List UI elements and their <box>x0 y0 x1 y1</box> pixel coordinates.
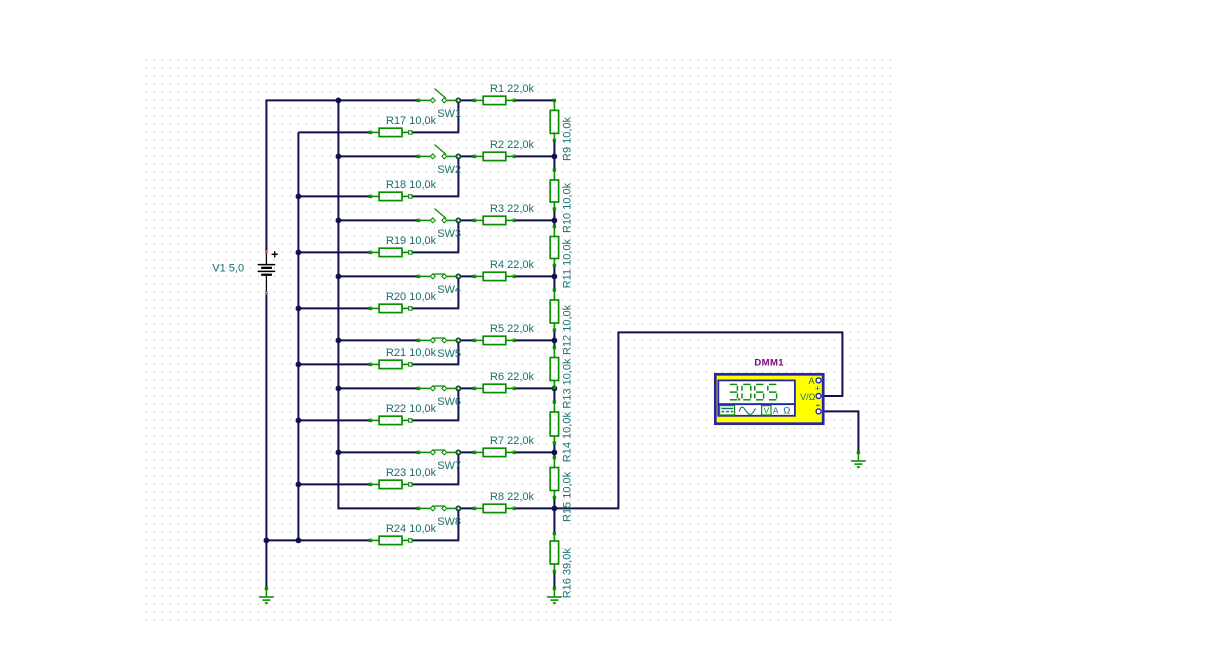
resistor R14 10,0k (vertical) <box>550 400 558 444</box>
resistor R20 10,0k <box>369 304 412 312</box>
resistor R17 10,0k <box>369 128 412 136</box>
junction bus B at R22 row <box>296 418 302 424</box>
resistor R10 10,0k (vertical) <box>550 168 558 210</box>
wire bus A to SW2 <box>338 155 418 157</box>
DMM1 terminals A, +, V/Ohm, - <box>800 376 821 414</box>
junction node bus A / V1+ <box>336 98 342 104</box>
resistor R7 22,0k <box>473 448 516 456</box>
resistor R4 22,0k <box>473 272 516 280</box>
wire bus B to R20 <box>298 307 370 309</box>
junction ladder node 8 <box>552 506 558 512</box>
wire R17 to SW1 output node <box>410 100 458 132</box>
resistor R9 10,0k (vertical) <box>550 99 558 142</box>
wire R18 to SW2 output node <box>410 156 458 196</box>
junction ladder node 6 <box>552 386 558 392</box>
wire ladder node 7 to node 8 <box>553 498 555 534</box>
wire ladder node 3 to node 4 <box>553 266 555 291</box>
wire SW3 output to R3 <box>458 219 474 221</box>
junction SW4 output (switch output node) <box>456 274 462 280</box>
wire R4 to ladder node 4 <box>514 275 554 277</box>
junction SW2 output (switch output node) <box>456 154 462 160</box>
svg-text:R9 10,0k: R9 10,0k <box>562 116 574 161</box>
resistor R2 22,0k <box>473 152 516 160</box>
wire ladder node 6 to node 7 <box>553 443 555 458</box>
svg-text:DMM1: DMM1 <box>754 357 784 368</box>
wire output node to DMM + (V/ohm) <box>554 332 842 508</box>
junction bus A at SW2 row <box>336 154 342 160</box>
wire ladder R16 to ground <box>553 572 555 588</box>
switch SW8 <box>417 506 459 511</box>
resistor R15 10,0k (vertical) <box>550 456 558 499</box>
wire bus A to SW4 <box>338 275 418 277</box>
svg-text:SW3: SW3 <box>437 228 461 240</box>
DMM1 display reading 3.065 <box>730 384 777 400</box>
wire ladder node 5 to node 6 <box>553 388 555 403</box>
resistor R3 22,0k <box>473 216 516 224</box>
svg-text:R10 10,0k: R10 10,0k <box>562 182 574 233</box>
junction ladder node 7 <box>552 450 558 456</box>
resistor R13 10,0k (vertical) <box>550 346 558 389</box>
wire R19 to SW3 output node <box>410 220 458 252</box>
svg-text:R18 10,0k: R18 10,0k <box>386 179 437 191</box>
wire bus B to R24 <box>266 539 370 541</box>
wire V1+ up and across to SW1 <box>266 100 418 250</box>
svg-text:V: V <box>763 405 769 415</box>
switch SW5 <box>417 338 459 343</box>
ground GND (ladder / R16) <box>547 587 562 603</box>
junction ladder node 5 <box>552 338 558 344</box>
resistor R19 10,0k <box>369 248 412 256</box>
junction bus A at SW4 row <box>336 274 342 280</box>
ground GND (V1) <box>259 587 274 603</box>
junction ladder node 4 <box>552 274 558 280</box>
svg-text:V1 5,0: V1 5,0 <box>212 263 244 275</box>
wire SW1 output to R1 <box>458 99 474 101</box>
wire R21 to SW5 output node <box>410 340 458 364</box>
wire R7 to ladder node 7 <box>514 451 554 453</box>
resistor R8 22,0k <box>473 504 516 512</box>
switch SW6 <box>417 386 459 391</box>
junction bus B at R21 row <box>296 362 302 368</box>
svg-text:SW8: SW8 <box>437 516 461 528</box>
svg-text:R16 39,0k: R16 39,0k <box>562 548 574 599</box>
svg-text:SW5: SW5 <box>437 348 461 360</box>
svg-text:R21 10,0k: R21 10,0k <box>386 347 437 359</box>
resistor R24 10,0k <box>369 536 412 544</box>
junction bus A at SW5 row <box>336 338 342 344</box>
junction ladder node 2 <box>552 154 558 160</box>
svg-text:SW7: SW7 <box>437 460 461 472</box>
svg-text:Ω: Ω <box>783 406 790 417</box>
svg-text:+: + <box>815 383 821 394</box>
svg-text:R23 10,0k: R23 10,0k <box>386 467 437 479</box>
switch SW3 <box>417 209 459 223</box>
junction SW5 output (switch output node) <box>456 338 462 344</box>
switch SW2 <box>417 145 459 159</box>
junction bus A at SW7 row <box>336 450 342 456</box>
wire bus A to SW7 <box>338 451 418 453</box>
switch SW7 <box>417 450 459 455</box>
wire SW4 output to R4 <box>458 275 474 277</box>
junction SW8 output (switch output node) <box>456 506 462 512</box>
resistor R6 22,0k <box>473 384 516 392</box>
junction SW3 output (switch output node) <box>456 218 462 224</box>
junction bus B at R18 row <box>296 194 302 200</box>
DMM1 mode icons (DC, AC, V, A, Ohm) <box>720 405 791 416</box>
wire R1 to ladder node 1 <box>514 99 554 101</box>
svg-text:R1 22,0k: R1 22,0k <box>490 83 535 95</box>
wire R5 to ladder node 5 <box>514 339 554 341</box>
wire bus A (SW feed) down to SW8 row <box>338 100 418 508</box>
junction ladder node 3 <box>552 218 558 224</box>
svg-text:R13 10,0k: R13 10,0k <box>562 358 574 409</box>
wire V1- down to bottom rail and ground <box>265 295 267 587</box>
junction bus A at SW6 row <box>336 386 342 392</box>
wire ladder node 2 to node 3 <box>553 209 555 227</box>
resistor R18 10,0k <box>369 192 412 200</box>
svg-text:A: A <box>773 405 779 415</box>
wire R20 to SW4 output node <box>410 276 458 308</box>
wire bus B to R17 <box>298 131 370 133</box>
wire R3 to ladder node 3 <box>514 219 554 221</box>
resistor R16 39,0k (vertical) <box>550 532 558 573</box>
wire bus A to SW6 <box>338 387 418 389</box>
junction bus A at SW3 row <box>336 218 342 224</box>
resistor R5 22,0k <box>473 336 516 344</box>
wire SW6 output to R6 <box>458 387 474 389</box>
resistor R1 22,0k <box>473 96 516 104</box>
svg-text:R7 22,0k: R7 22,0k <box>490 435 535 447</box>
wire R24 to SW8 output node <box>410 508 458 540</box>
wire bus B to R22 <box>298 419 370 421</box>
wire R22 to SW6 output node <box>410 388 458 420</box>
svg-text:R15 10,0k: R15 10,0k <box>562 471 574 522</box>
wire bus B to R18 <box>298 195 370 197</box>
svg-text:R11 10,0k: R11 10,0k <box>562 238 574 288</box>
wire bus B (R17-R24 feed) <box>297 132 299 540</box>
junction bus B at R20 row <box>296 306 302 312</box>
svg-text:R17 10,0k: R17 10,0k <box>386 115 437 127</box>
junction SW7 output (switch output node) <box>456 450 462 456</box>
junction bus B at bottom rail <box>296 538 302 544</box>
svg-text:SW4: SW4 <box>437 284 461 296</box>
wire R23 to SW7 output node <box>410 452 458 484</box>
junction bus B at R19 row <box>296 250 302 256</box>
wire ladder node 1 to node 2 <box>553 140 555 170</box>
svg-text:R3 22,0k: R3 22,0k <box>490 203 535 215</box>
wire SW2 output to R2 <box>458 155 474 157</box>
switch SW1 <box>417 89 459 103</box>
svg-text:R2 22,0k: R2 22,0k <box>490 139 535 151</box>
wire bus B to R23 <box>298 483 370 485</box>
svg-text:R8 22,0k: R8 22,0k <box>490 491 535 503</box>
svg-text:R5 22,0k: R5 22,0k <box>490 323 535 335</box>
wire R6 to ladder node 6 <box>514 387 554 389</box>
svg-text:R19 10,0k: R19 10,0k <box>386 235 437 247</box>
wire bus A to SW5 <box>338 339 418 341</box>
wire DMM - to ground <box>822 411 859 451</box>
wire SW7 output to R7 <box>458 451 474 453</box>
wire bus A to SW3 <box>338 219 418 221</box>
junction V1- at bottom rail <box>264 538 270 544</box>
wire R2 to ladder node 2 <box>514 155 554 157</box>
wire ladder node 4 to node 5 <box>553 330 555 348</box>
junction SW6 output (switch output node) <box>456 386 462 392</box>
resistor R23 10,0k <box>369 480 412 488</box>
svg-text:SW6: SW6 <box>437 396 461 408</box>
wire SW8 output to R8 <box>458 507 474 509</box>
svg-text:SW1: SW1 <box>437 108 461 120</box>
svg-text:R24 10,0k: R24 10,0k <box>386 523 437 535</box>
switch SW4 <box>417 274 459 279</box>
svg-text:R22 10,0k: R22 10,0k <box>386 403 437 415</box>
resistor R22 10,0k <box>369 416 412 424</box>
svg-text:SW2: SW2 <box>437 164 461 176</box>
battery V1 5,0 V <box>258 250 278 294</box>
resistor R21 10,0k <box>369 360 412 368</box>
wire SW5 output to R5 <box>458 339 474 341</box>
resistor R12 10,0k (vertical) <box>550 288 558 331</box>
svg-text:V/Ω: V/Ω <box>800 392 816 402</box>
ground GND (DMM) <box>851 451 866 467</box>
junction bus B at R23 row <box>296 482 302 488</box>
wire bus B to R21 <box>298 363 370 365</box>
svg-text:R4 22,0k: R4 22,0k <box>490 259 535 271</box>
svg-text:R12 10,0k: R12 10,0k <box>562 304 574 355</box>
svg-text:R6 22,0k: R6 22,0k <box>490 371 535 383</box>
svg-text:R20 10,0k: R20 10,0k <box>386 291 437 303</box>
svg-text:A: A <box>808 376 814 386</box>
multimeter DMM1 <box>715 374 823 423</box>
svg-text:R14 10,0k: R14 10,0k <box>562 412 574 463</box>
junction SW1 output (switch output node) <box>456 98 462 104</box>
wire R8 to ladder node 8 <box>514 507 554 509</box>
wire bus B to R19 <box>298 251 370 253</box>
resistor R11 10,0k (vertical) <box>550 225 558 267</box>
